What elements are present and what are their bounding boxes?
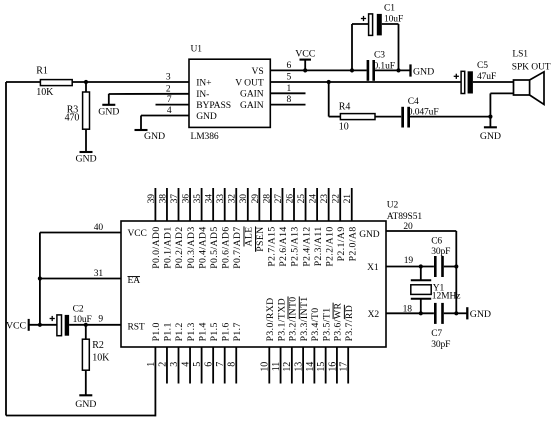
- svg-text:P3.0/RXD: P3.0/RXD: [265, 297, 276, 341]
- wire U2 bottom pin 14: [313, 347, 315, 384]
- U1 pin number 3: [166, 73, 171, 83]
- wire U2 bottom pin 4: [189, 347, 191, 384]
- svg-text:P0.5/AD5: P0.5/AD5: [209, 226, 220, 268]
- U2 pin number 39: [147, 194, 157, 204]
- U2 pin name P1.2 (pin 3): [174, 322, 185, 341]
- wire U2 bottom pin 8: [235, 347, 237, 384]
- U2 pin number 33: [216, 194, 226, 204]
- U2 pin number 38: [158, 194, 168, 204]
- wire U2 bottom pin 17: [347, 347, 349, 384]
- U2 pin name P2.7/A15 (pin 28): [267, 226, 278, 266]
- svg-text:LS1: LS1: [512, 50, 528, 60]
- svg-text:P2.5/A13: P2.5/A13: [290, 226, 301, 266]
- U2 pin name P3.6/WR (pin 16): [333, 303, 344, 342]
- svg-text:28: 28: [262, 194, 272, 204]
- svg-text:27: 27: [274, 194, 284, 204]
- svg-text:4: 4: [167, 106, 172, 116]
- svg-text:29: 29: [251, 194, 261, 204]
- wire C3 to ground: [375, 69, 411, 71]
- capacitor C5: [461, 61, 496, 94]
- svg-text:25: 25: [297, 194, 307, 204]
- svg-text:12: 12: [282, 362, 293, 372]
- svg-text:35: 35: [193, 194, 203, 204]
- U2 pin number 28: [262, 194, 272, 204]
- svg-text:R1: R1: [36, 66, 48, 77]
- svg-text:P1.3: P1.3: [186, 322, 197, 341]
- wire U2 pin 1 to bottom loop: [154, 347, 156, 416]
- svg-text:15: 15: [316, 362, 327, 372]
- U1 pin name GAIN (pin1): [240, 89, 264, 100]
- wire C7 to GND rail: [444, 312, 457, 314]
- wire C5 to speaker: [473, 81, 514, 83]
- capacitor C3: [367, 51, 395, 81]
- capacitor C1: [369, 4, 404, 36]
- wire U1 GND pin 4: [141, 115, 189, 117]
- ground below speaker: [480, 127, 501, 142]
- svg-text:P0.4/AD4: P0.4/AD4: [197, 226, 208, 268]
- U2 pin number 15: [316, 362, 327, 372]
- wire speaker junction to ground: [489, 117, 491, 128]
- U1 designator: [191, 45, 203, 55]
- wire U2 bottom pin 3: [178, 347, 180, 384]
- svg-text:EA: EA: [128, 276, 141, 286]
- svg-text:GND: GND: [470, 309, 491, 320]
- svg-text:U2: U2: [387, 201, 399, 211]
- ground at U1 pin 4: [135, 130, 166, 142]
- svg-text:6: 6: [287, 61, 292, 71]
- U2 pin name P2.0/A8 (pin 21): [347, 226, 358, 261]
- U2 pin number 16: [327, 362, 338, 372]
- svg-text:33: 33: [216, 194, 226, 204]
- resistor R3: [65, 92, 90, 129]
- U2 pin name P3.0/RXD (pin 10): [265, 297, 276, 341]
- U1 part value LM386: [191, 132, 219, 142]
- U2 pin name PSEN (pin 29): [255, 226, 266, 251]
- svg-text:39: 39: [147, 194, 157, 204]
- capacitor C7: [431, 303, 450, 350]
- svg-text:R2: R2: [92, 340, 104, 351]
- wire U2 bottom pin 5: [201, 347, 203, 384]
- U2 pin name P1.0 (pin 1): [151, 322, 162, 341]
- wire U2 bottom pin 16: [336, 347, 338, 384]
- wire U2 bottom pin 12: [291, 347, 293, 384]
- svg-text:30: 30: [239, 194, 249, 204]
- wire left vertical loop: [5, 82, 7, 416]
- wire X1 to crystal: [420, 267, 422, 281]
- wire U2 top pin 30: [247, 188, 249, 221]
- U2 pin number 26: [285, 194, 295, 204]
- wire IN- ground drop: [108, 94, 110, 105]
- U2 pin name X1: [367, 263, 379, 273]
- svg-text:P1.2: P1.2: [174, 322, 185, 341]
- wire U2 GND pin 20: [386, 230, 456, 232]
- U2 pin name P3.3/INT1 (pin 13): [299, 296, 310, 341]
- U1 pin number 6: [287, 61, 292, 71]
- U1 pin number 2: [166, 84, 171, 94]
- svg-text:10uF: 10uF: [384, 15, 403, 25]
- svg-text:P3.1/TXD: P3.1/TXD: [276, 298, 287, 341]
- node EA junction: [38, 276, 42, 280]
- wire U2 top pin 28: [270, 188, 272, 221]
- svg-text:P3.6/WR: P3.6/WR: [333, 303, 344, 342]
- wire R2 top: [85, 325, 87, 339]
- wire U2 bottom pin 15: [325, 347, 327, 384]
- svg-text:6: 6: [204, 362, 215, 367]
- node X2 junction: [419, 311, 423, 315]
- U2 pin number 23: [320, 194, 330, 204]
- capacitor C1 plus mark: [361, 16, 366, 21]
- U2 pin name P2.1/A9 (pin 22): [336, 226, 347, 261]
- svg-text:30pF: 30pF: [431, 340, 450, 350]
- svg-text:8: 8: [227, 362, 238, 367]
- svg-text:7: 7: [167, 95, 172, 105]
- svg-text:10K: 10K: [92, 353, 110, 364]
- U2 pin name P0.4/AD4 (pin 35): [197, 226, 208, 268]
- U1 pin number 8: [287, 95, 292, 105]
- svg-text:V OUT: V OUT: [235, 77, 264, 88]
- resistor R4: [339, 101, 375, 132]
- capacitor C6: [431, 237, 450, 278]
- svg-text:32: 32: [228, 194, 238, 204]
- U2 pin number 32: [228, 194, 238, 204]
- U2 pin name P2.4/A12 (pin 25): [301, 226, 312, 266]
- U2 pin name P3.1/TXD (pin 11): [276, 298, 287, 341]
- wire U2 bottom pin 13: [302, 347, 304, 384]
- svg-text:12MHz: 12MHz: [432, 292, 461, 302]
- svg-text:LM386: LM386: [191, 132, 219, 142]
- svg-text:P2.0/A8: P2.0/A8: [347, 226, 358, 261]
- svg-text:22: 22: [332, 194, 342, 204]
- svg-text:VS: VS: [252, 66, 264, 77]
- svg-text:IN+: IN+: [196, 77, 211, 88]
- svg-text:26: 26: [285, 194, 295, 204]
- svg-text:2: 2: [157, 362, 168, 367]
- U2 pin name X2: [368, 310, 380, 320]
- U2 pin number 5: [192, 362, 203, 367]
- wire U2 VCC pin 40: [40, 232, 121, 234]
- wire U2 X2 pin 18: [386, 312, 434, 314]
- U1 pin number 7: [167, 95, 172, 105]
- wire U2 top pin 21: [351, 188, 353, 221]
- U2 pin number 3: [169, 362, 180, 367]
- wire U2 top pin 25: [305, 188, 307, 221]
- power VCC at U1 pin 6: [295, 49, 316, 71]
- U2 pin name VCC: [128, 229, 147, 239]
- svg-text:C7: C7: [431, 329, 442, 339]
- wire R1 to U1 IN+: [72, 81, 189, 83]
- U2 pin name P0.0/AD0 (pin 39): [151, 226, 162, 268]
- svg-text:16: 16: [327, 362, 338, 372]
- wire U2 top pin 39: [154, 188, 156, 221]
- svg-text:17: 17: [339, 362, 350, 372]
- wire U2 top pin 32: [235, 188, 237, 221]
- svg-text:P0.3/AD3: P0.3/AD3: [186, 226, 197, 268]
- U1 pin name V OUT: [235, 77, 264, 88]
- svg-text:P0.6/AD6: P0.6/AD6: [220, 226, 231, 268]
- U2 pin number 22: [332, 194, 342, 204]
- svg-text:GND: GND: [98, 106, 119, 117]
- U2 pin name P1.4 (pin 5): [197, 322, 208, 341]
- U2 pin name P2.3/A11 (pin 24): [313, 226, 324, 266]
- wire U2 top pin 33: [224, 188, 226, 221]
- svg-text:SPK OUT: SPK OUT: [512, 62, 551, 72]
- svg-text:GND: GND: [75, 153, 96, 164]
- wire U2 top pin 23: [328, 188, 330, 221]
- U1 pin number 4: [167, 106, 172, 116]
- svg-text:3: 3: [166, 73, 171, 83]
- svg-text:GND: GND: [144, 131, 165, 142]
- wire U2 bottom pin 7: [224, 347, 226, 384]
- U2 pin name P0.1/AD1 (pin 38): [163, 226, 174, 268]
- U2 pin name P1.6 (pin 7): [220, 322, 231, 341]
- U2 pin number 21: [343, 194, 353, 204]
- svg-text:VCC: VCC: [6, 320, 27, 331]
- node X1 junction: [419, 264, 423, 268]
- U1 pin number 1: [287, 84, 292, 94]
- U2 pin number 34: [205, 194, 215, 204]
- svg-text:10: 10: [260, 362, 271, 372]
- U2 pin name P0.3/AD3 (pin 36): [186, 226, 197, 268]
- U2 pin name P0.2/AD2 (pin 37): [174, 226, 185, 268]
- U2 pin name EA: [128, 276, 141, 286]
- wire U2 top pin 38: [166, 188, 168, 221]
- U2 pin number 6: [204, 362, 215, 367]
- microcontroller U2 AT89S51 body: [121, 221, 386, 347]
- wire crystal to X2: [420, 299, 422, 314]
- ground at IN-: [98, 105, 119, 118]
- U1 pin name IN+: [196, 77, 211, 88]
- wire R4 to C4: [375, 116, 401, 118]
- capacitor C5 plus mark: [454, 74, 459, 79]
- U2 pin number 20: [403, 222, 413, 232]
- svg-text:13: 13: [294, 362, 305, 372]
- U2 pin number 13: [294, 362, 305, 372]
- wire U2 bottom pin 6: [212, 347, 214, 384]
- wire R3 top: [85, 82, 87, 92]
- wire R2 to ground: [85, 370, 87, 395]
- wire C1 left leg: [352, 24, 368, 70]
- capacitor C4: [401, 97, 438, 128]
- node VCC/C2 junction: [38, 323, 42, 327]
- wire VS pin6 to C3: [270, 69, 366, 71]
- U2 pin name ALE (pin 30): [244, 226, 255, 246]
- U2 pin number 9: [98, 314, 103, 324]
- U2 pin name P1.5 (pin 6): [209, 322, 220, 341]
- svg-text:30pF: 30pF: [431, 247, 450, 257]
- svg-text:34: 34: [205, 194, 215, 204]
- svg-text:C3: C3: [374, 51, 385, 61]
- svg-text:8: 8: [287, 95, 292, 105]
- svg-text:P1.0: P1.0: [151, 322, 162, 341]
- U2 pin name P0.5/AD5 (pin 34): [209, 226, 220, 268]
- U2 pin number 37: [170, 194, 180, 204]
- resistor R1: [36, 66, 72, 99]
- node R4 branch junction: [327, 80, 331, 84]
- U2 pin number 8: [227, 362, 238, 367]
- svg-text:P3.4/T0: P3.4/T0: [310, 308, 321, 342]
- svg-text:11: 11: [271, 362, 282, 372]
- wire U1 GAIN pin8 stub: [270, 104, 305, 106]
- svg-text:GND: GND: [196, 111, 217, 122]
- svg-text:P3.5/T1: P3.5/T1: [321, 308, 332, 342]
- svg-text:PSEN: PSEN: [255, 226, 266, 251]
- U2 pin name P3.4/T0 (pin 14): [310, 308, 321, 342]
- U2 pin number 11: [271, 362, 282, 372]
- node C6 right junction: [454, 264, 458, 268]
- svg-text:5: 5: [192, 362, 203, 367]
- U2 pin name GND: [359, 230, 380, 240]
- crystal Y1 top plate: [411, 279, 431, 281]
- U2 pin number 35: [193, 194, 203, 204]
- U2 pin number 25: [297, 194, 307, 204]
- svg-text:P0.1/AD1: P0.1/AD1: [163, 226, 174, 268]
- svg-text:P0.2/AD2: P0.2/AD2: [174, 226, 185, 268]
- svg-text:21: 21: [343, 194, 353, 204]
- U2 pin name P3.5/T1 (pin 15): [321, 308, 332, 342]
- svg-text:VCC: VCC: [295, 49, 316, 60]
- svg-text:14: 14: [305, 362, 316, 372]
- U2 pin name P1.7 (pin 8): [232, 322, 243, 341]
- svg-text:P2.3/A11: P2.3/A11: [313, 226, 324, 266]
- svg-text:P2.6/A14: P2.6/A14: [278, 226, 289, 266]
- U2 pin name RST: [128, 322, 145, 332]
- svg-text:C2: C2: [73, 304, 84, 314]
- U2 pin number 27: [274, 194, 284, 204]
- wire U2 top pin 24: [316, 188, 318, 221]
- wire C2 to RST: [69, 324, 121, 326]
- svg-text:IN-: IN-: [196, 89, 209, 100]
- node C7 right junction: [454, 311, 458, 315]
- U2 pin number 29: [251, 194, 261, 204]
- svg-text:10uF: 10uF: [73, 315, 92, 325]
- U2 designator: [387, 201, 399, 211]
- U2 pin number 12: [282, 362, 293, 372]
- node R2 junction: [84, 323, 88, 327]
- U2 pin number 40: [94, 223, 104, 233]
- wire VCC to C2: [29, 324, 57, 326]
- svg-text:5: 5: [287, 73, 292, 83]
- wire U2 top pin 34: [212, 188, 214, 221]
- svg-text:RST: RST: [128, 322, 145, 332]
- svg-text:GND: GND: [359, 230, 380, 240]
- wire U2 top pin 22: [339, 188, 341, 221]
- U2 pin name P3.7/RD (pin 17): [344, 305, 355, 342]
- svg-text:P3.2/INT0: P3.2/INT0: [288, 296, 299, 341]
- svg-text:P1.6: P1.6: [220, 322, 231, 341]
- loudspeaker LS1: [512, 50, 551, 105]
- wire U2 bottom pin 11: [280, 347, 282, 384]
- wire U2 bottom pin 2: [166, 347, 168, 384]
- U1 pin number 5: [287, 73, 292, 83]
- wire U2 top pin 29: [258, 188, 260, 221]
- wire GND rail vertical: [455, 231, 457, 313]
- wire V OUT pin5 to C5: [270, 81, 461, 83]
- U2 pin number 10: [260, 362, 271, 372]
- crystal Y1 12MHz: [411, 284, 461, 302]
- U2 pin name P0.7/AD7 (pin 32): [232, 226, 243, 268]
- U2 pin number 2: [157, 362, 168, 367]
- svg-text:P1.4: P1.4: [197, 322, 208, 341]
- svg-text:X1: X1: [367, 263, 379, 273]
- crystal Y1 bottom plate: [411, 298, 431, 300]
- svg-text:GND: GND: [480, 131, 501, 142]
- ground below R2: [75, 395, 96, 410]
- wire U2 X1 pin 19: [386, 266, 434, 268]
- wire C6 to GND rail: [444, 266, 457, 268]
- wire IN- to ground: [109, 93, 189, 95]
- capacitor C2 plus mark: [50, 316, 55, 321]
- node C1 right junction: [396, 68, 400, 72]
- ground tick after C3: [411, 64, 435, 77]
- svg-text:36: 36: [181, 194, 191, 204]
- U1 pin name BYPASS: [196, 100, 231, 111]
- U2 pin name P0.6/AD6 (pin 33): [220, 226, 231, 268]
- U2 part value AT89S51: [387, 212, 423, 222]
- svg-text:C5: C5: [477, 61, 488, 71]
- svg-text:4: 4: [180, 362, 191, 367]
- capacitor C2: [57, 304, 92, 335]
- svg-text:C6: C6: [431, 237, 442, 247]
- svg-text:1: 1: [287, 84, 292, 94]
- svg-text:10K: 10K: [36, 87, 54, 98]
- wire U2 top pin 37: [178, 188, 180, 221]
- op-amp U1 LM386 body: [189, 59, 270, 127]
- svg-text:P3.3/INT1: P3.3/INT1: [299, 296, 310, 341]
- wire C4 to speaker junction: [410, 116, 490, 118]
- svg-text:38: 38: [158, 194, 168, 204]
- wire VCC rail vertical: [39, 233, 41, 325]
- U2 pin number 36: [181, 194, 191, 204]
- U1 pin name IN-: [196, 89, 209, 100]
- svg-text:BYPASS: BYPASS: [196, 100, 231, 111]
- wire speaker return: [490, 93, 513, 116]
- wire U1 pin 4 drop: [140, 116, 142, 131]
- svg-text:VCC: VCC: [128, 229, 147, 239]
- wire U2 bottom pin 10: [268, 347, 270, 384]
- wire R3 to ground: [85, 129, 87, 152]
- U2 pin name P2.5/A13 (pin 26): [290, 226, 301, 266]
- svg-text:P1.1: P1.1: [163, 322, 174, 341]
- svg-text:7: 7: [215, 362, 226, 367]
- U2 pin name P1.1 (pin 2): [163, 322, 174, 341]
- svg-text:2: 2: [166, 84, 171, 94]
- wire U2 top pin 35: [201, 188, 203, 221]
- wire from left loop to R1: [6, 81, 40, 83]
- svg-text:P2.1/A9: P2.1/A9: [336, 226, 347, 261]
- svg-text:37: 37: [170, 194, 180, 204]
- svg-text:R4: R4: [339, 101, 351, 112]
- svg-text:P0.7/AD7: P0.7/AD7: [232, 226, 243, 268]
- wire BYPASS stub pin 7: [156, 104, 190, 106]
- wire U2 top pin 36: [189, 188, 191, 221]
- svg-text:23: 23: [320, 194, 330, 204]
- U2 pin number 7: [215, 362, 226, 367]
- svg-text:GND: GND: [413, 67, 434, 78]
- U2 pin number 14: [305, 362, 316, 372]
- U1 pin name VS: [252, 66, 264, 77]
- U2 pin number 4: [180, 362, 191, 367]
- resistor R2: [82, 339, 110, 370]
- node VCC junction: [303, 68, 307, 72]
- U2 pin number 31: [94, 269, 104, 279]
- node R1/R3 junction: [84, 80, 88, 84]
- svg-text:24: 24: [309, 194, 319, 204]
- U2 pin number 24: [309, 194, 319, 204]
- wire U1 GAIN pin1 stub: [270, 92, 305, 94]
- svg-text:P1.5: P1.5: [209, 322, 220, 341]
- svg-text:P2.7/A15: P2.7/A15: [267, 226, 278, 266]
- U2 pin number 1: [146, 362, 157, 367]
